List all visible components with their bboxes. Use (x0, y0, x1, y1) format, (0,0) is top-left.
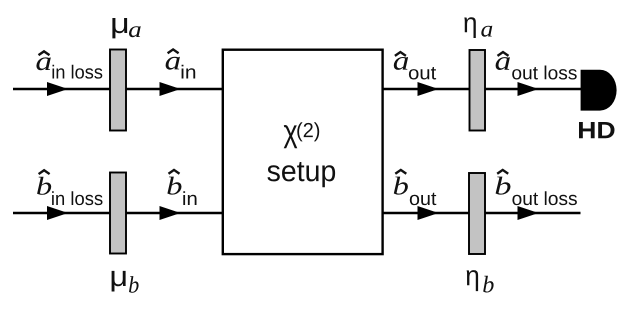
label b_in: hat (169, 170, 180, 174)
arrow on a output wire after box (418, 82, 439, 96)
arrow on b input wire before mu_b (47, 206, 68, 220)
wire bottom-right (b output) (383, 212, 581, 215)
label mu_b: subscript b (129, 276, 139, 293)
box label chi (284, 125, 298, 148)
wire top-right (a output) (383, 88, 582, 91)
label b_out_loss: subscript out loss (512, 191, 577, 205)
label a_out: hat (395, 52, 406, 56)
label b_in_loss: subscript in loss (52, 191, 102, 205)
wire bottom-left (b input) (13, 212, 223, 215)
label eta_a: eta (464, 17, 476, 38)
label a_out: glyph a (394, 57, 408, 70)
label b_out: hat (395, 170, 406, 174)
arrow on a input wire before mu_a (47, 82, 68, 96)
label a_in_loss: hat (39, 51, 50, 55)
arrow on a input wire after mu_a (160, 82, 181, 96)
label b_in: glyph b (167, 177, 181, 195)
attenuator mu_b (gray slab) (110, 173, 126, 254)
box label setup (267, 162, 335, 187)
label b_in_loss: glyph b (37, 177, 51, 195)
label b_in_loss: hat (39, 170, 50, 174)
label a_out_loss: glyph a (496, 57, 510, 70)
label b_out_loss: glyph b (496, 177, 511, 195)
arrow on a output wire after eta_a (518, 82, 539, 96)
label b_out: subscript out (410, 193, 437, 205)
label eta_b: eta (467, 270, 479, 291)
chi(2) setup box (223, 50, 383, 254)
label mu_b: mu (112, 271, 126, 292)
label HD text (579, 122, 615, 138)
label a_out: subscript out (409, 67, 436, 79)
label eta_b: subscript b (483, 276, 493, 293)
label b_out_loss: hat (497, 170, 508, 174)
label b_out: glyph b (394, 177, 408, 195)
attenuator eta_a (gray slab) (470, 50, 486, 131)
label a_out_loss: subscript out loss (512, 66, 577, 80)
label a_in: subscript in (182, 65, 196, 79)
label a_in: hat (168, 49, 179, 53)
label mu_a: mu (112, 18, 127, 38)
arrow on b output wire after eta_b (518, 206, 539, 220)
wire top-left (a input) (13, 88, 223, 91)
label b_in: subscript in (183, 191, 196, 205)
homodyne detector HD symbol (581, 70, 617, 111)
label a_in_loss: subscript in loss (52, 65, 102, 79)
attenuator eta_b (gray slab) (469, 173, 485, 254)
label eta_a: subscript a (481, 26, 492, 37)
arrow on b input wire after mu_b (160, 206, 181, 220)
attenuator mu_a (gray slab) (110, 50, 126, 131)
label a_out_loss: hat (498, 52, 509, 56)
box label superscript (2) (297, 122, 319, 141)
label a_in_loss: a-hat glyph a (36, 57, 50, 70)
arrow on b output wire after box (418, 206, 439, 220)
label mu_a: subscript a (129, 26, 141, 37)
label a_in: glyph a (166, 57, 180, 70)
